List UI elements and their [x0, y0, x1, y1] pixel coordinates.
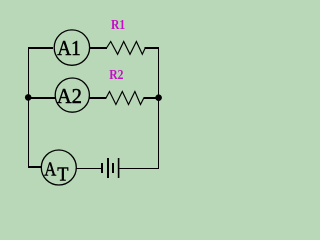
resistor R1 [107, 42, 146, 55]
battery BT1 [101, 158, 119, 178]
ammeter A1 [54, 30, 89, 65]
wire [144, 97, 157, 99]
wire [145, 47, 160, 49]
wire [28, 47, 53, 49]
node (right junction) [155, 94, 162, 101]
resistor R2 [106, 92, 144, 105]
svg-text:A: A [44, 159, 56, 181]
svg-text:R2: R2 [109, 67, 123, 82]
svg-text:A2: A2 [57, 84, 82, 108]
wire [158, 47, 160, 169]
svg-text:A1: A1 [57, 36, 81, 60]
node (left junction) [25, 94, 32, 101]
svg-text:T: T [57, 164, 68, 186]
wire [90, 97, 107, 99]
ammeter AT [41, 150, 76, 186]
wire [28, 166, 42, 168]
wire [28, 47, 30, 168]
wire [119, 168, 159, 170]
ammeter A2 [55, 78, 89, 112]
wire [76, 168, 101, 170]
wire [89, 47, 107, 49]
svg-text:R1: R1 [111, 17, 125, 32]
wire [29, 97, 55, 99]
